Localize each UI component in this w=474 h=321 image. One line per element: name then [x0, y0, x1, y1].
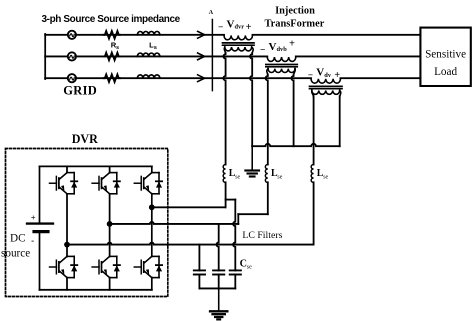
svg-text:GRID: GRID [63, 83, 97, 97]
svg-text:se: se [323, 174, 328, 180]
svg-text:dvr: dvr [235, 24, 245, 31]
svg-text:DVR: DVR [72, 132, 99, 146]
svg-text:s: s [154, 45, 157, 51]
svg-text:V: V [269, 41, 277, 53]
svg-text:Injection: Injection [275, 5, 315, 16]
svg-text:dvb: dvb [277, 46, 288, 53]
svg-text:se: se [277, 174, 282, 180]
svg-text:V: V [227, 18, 235, 30]
svg-text:Sensitive: Sensitive [425, 48, 466, 60]
svg-text:-: - [31, 235, 34, 245]
svg-text:+: + [289, 38, 295, 49]
svg-text:+: + [31, 212, 36, 222]
svg-text:se: se [235, 174, 240, 180]
svg-text:−: − [218, 23, 223, 33]
svg-text:−: − [260, 45, 265, 55]
svg-text:−: − [308, 71, 313, 81]
svg-text:V: V [316, 67, 324, 79]
svg-text:se: se [247, 265, 252, 271]
svg-text:dv: dv [324, 72, 332, 79]
svg-text:3-ph Source Source impedance: 3-ph Source Source impedance [42, 14, 181, 25]
svg-text:DC: DC [10, 233, 26, 245]
svg-text:s: s [116, 45, 119, 51]
svg-text:+: + [334, 70, 340, 81]
svg-text:source: source [1, 248, 30, 260]
svg-text:LC Filters: LC Filters [242, 230, 282, 241]
svg-text:+: + [246, 22, 252, 33]
svg-text:A: A [209, 9, 214, 16]
svg-text:Load: Load [434, 66, 457, 78]
svg-text:TransFormer: TransFormer [264, 19, 324, 30]
